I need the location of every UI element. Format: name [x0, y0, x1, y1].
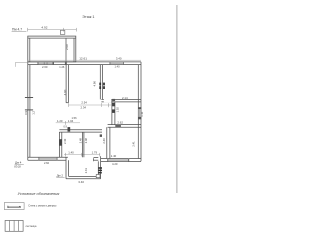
- svg-text:4.92: 4.92: [41, 25, 47, 29]
- svg-text:2.48: 2.48: [84, 138, 88, 144]
- svg-text:1.04: 1.04: [68, 119, 74, 123]
- svg-text:1.02: 1.02: [115, 107, 119, 113]
- svg-text:1.40: 1.40: [111, 154, 117, 158]
- svg-text:1.40: 1.40: [115, 64, 121, 68]
- svg-text:2.54: 2.54: [81, 100, 87, 104]
- svg-text:4.20: 4.20: [112, 162, 118, 166]
- svg-text:0.9: 0.9: [24, 110, 28, 114]
- svg-text:4.90: 4.90: [63, 89, 67, 95]
- svg-text:Стена с окном и дверью: Стена с окном и дверью: [28, 205, 56, 208]
- svg-text:1.26: 1.26: [59, 65, 65, 69]
- svg-text:2.40: 2.40: [102, 138, 106, 144]
- svg-text:12.61: 12.61: [79, 57, 87, 61]
- svg-text:3.40: 3.40: [116, 56, 122, 60]
- svg-text:2.60: 2.60: [44, 161, 50, 165]
- svg-text:1.20: 1.20: [57, 119, 63, 123]
- svg-text:2.41: 2.41: [84, 167, 88, 173]
- svg-text:Дм 2: Дм 2: [57, 174, 64, 178]
- svg-text:2.62: 2.62: [117, 120, 123, 124]
- svg-text:Дм 4: Дм 4: [15, 161, 22, 165]
- svg-text:8Э.28: 8Э.28: [14, 165, 21, 168]
- svg-text:Условные обозначения: Условные обозначения: [18, 191, 60, 196]
- svg-text:Этаж 1: Этаж 1: [82, 15, 94, 19]
- svg-text:1.2: 1.2: [32, 110, 36, 114]
- svg-text:3.40: 3.40: [78, 180, 84, 184]
- svg-text:2.60: 2.60: [42, 65, 48, 69]
- svg-text:2.41: 2.41: [132, 141, 136, 147]
- svg-text:2.14: 2.14: [122, 96, 128, 100]
- svg-text:1.79: 1.79: [92, 151, 98, 155]
- svg-text:лестница: лестница: [26, 225, 37, 228]
- svg-text:2.90: 2.90: [65, 44, 69, 50]
- svg-text:2.48: 2.48: [79, 138, 83, 144]
- svg-text:4.90: 4.90: [93, 81, 97, 87]
- svg-text:Пм 4.7: Пм 4.7: [12, 28, 22, 32]
- svg-text:2.40: 2.40: [63, 138, 67, 144]
- svg-text:1.10: 1.10: [140, 111, 144, 117]
- svg-text:1.40: 1.40: [68, 151, 74, 155]
- svg-text:2.34: 2.34: [81, 105, 87, 109]
